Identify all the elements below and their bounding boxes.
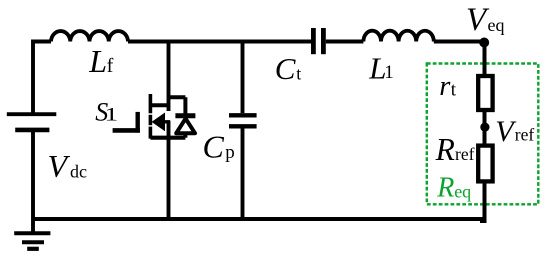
svg-text:ref: ref [515, 125, 535, 145]
svg-text:C: C [275, 51, 296, 86]
source stub / diode bottom [151, 136, 186, 140]
svg-text:dc: dc [70, 162, 87, 182]
svg-text:1: 1 [105, 104, 119, 125]
svg-text:t: t [451, 79, 457, 100]
svg-text:eq: eq [488, 15, 505, 35]
wire Veq node down to rt [483, 42, 487, 78]
svg-text:t: t [296, 63, 301, 83]
gate lead [113, 128, 140, 133]
wire top rail Lf to Ct [128, 40, 311, 44]
wire Ct to L1 [326, 40, 364, 44]
svg-text:R: R [435, 132, 455, 167]
svg-text:p: p [225, 142, 235, 163]
channel dash body [149, 115, 153, 125]
svg-text:eq: eq [454, 181, 471, 201]
svg-text:L: L [88, 43, 107, 79]
svg-text:C: C [203, 129, 225, 165]
wire Rref to bottom rail [480, 181, 485, 221]
svg-text:R: R [436, 173, 454, 204]
svg-text:ref: ref [455, 144, 475, 164]
green dashed box Req [427, 64, 539, 205]
capacitor Cp branch wire bottom [241, 129, 245, 220]
body stub [163, 120, 170, 123]
channel dash source [149, 127, 153, 139]
wire battery to bottom rail and ground [31, 130, 35, 233]
diode triangle [176, 119, 195, 134]
diode top wire [169, 97, 186, 114]
capacitor Cp [229, 115, 257, 126]
svg-text:f: f [107, 55, 114, 77]
body arrow [152, 113, 165, 132]
diode bottom wire [183, 133, 187, 137]
svg-text:r: r [439, 71, 451, 102]
battery Vdc [7, 114, 57, 130]
source wire [167, 121, 171, 219]
diode cathode bar [175, 113, 195, 118]
drain wire [167, 42, 171, 112]
gate plate [135, 112, 139, 133]
drain stub [151, 103, 169, 107]
resistor Rref [478, 146, 492, 182]
wire rt to Rref [483, 110, 487, 147]
node Vref dot [480, 123, 489, 132]
capacitor Cp branch wire top [241, 42, 245, 114]
node Veq dot [479, 38, 489, 48]
capacitor Ct [313, 28, 323, 54]
resistor rt [478, 76, 492, 110]
wire top-left riser [33, 42, 51, 115]
wire bottom rail [33, 217, 486, 221]
svg-text:1: 1 [384, 62, 394, 83]
inductor L1 [363, 31, 433, 42]
ground [14, 233, 50, 249]
channel dash drain [149, 94, 153, 113]
inductor Lf [51, 31, 128, 41]
wire L1 to Veq node [434, 40, 484, 44]
